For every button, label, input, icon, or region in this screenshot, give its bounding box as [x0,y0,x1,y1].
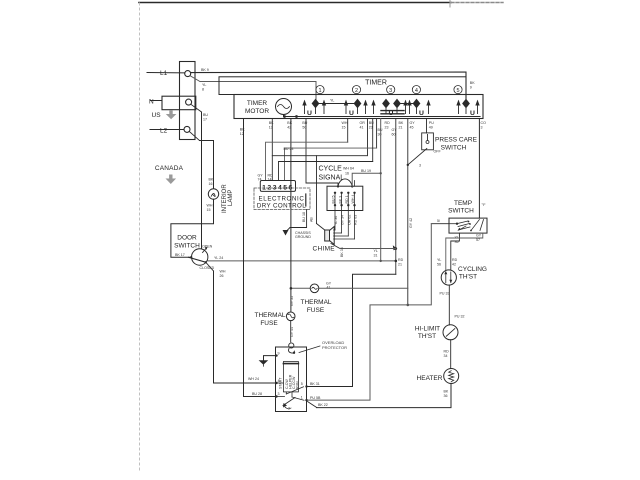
svg-text:PU 5B: PU 5B [310,396,321,400]
wire arc jumper WH-64 [338,179,352,186]
timer contact group 5 [456,99,479,117]
temp switch S4 [449,218,487,233]
svg-text:16: 16 [345,172,349,176]
wire N to door switch BU-17 [191,104,202,112]
svg-text:15: 15 [207,208,211,212]
svg-text:LAMP: LAMP [228,190,234,206]
svg-text:4: 4 [415,88,418,94]
svg-text:FUSE: FUSE [307,307,325,314]
wires cycle box to chime [334,230,355,239]
svg-text:36: 36 [444,394,448,398]
svg-text:41: 41 [360,126,364,130]
svg-text:YL: YL [455,236,459,240]
svg-text:CO: CO [481,121,487,125]
svg-text:RD 1: RD 1 [345,195,349,203]
wire H1 horizontal [266,142,348,180]
svg-text:1: 1 [301,396,303,400]
svg-text:GY 42: GY 42 [409,218,413,228]
wire H2 horizontal BU-24 [285,148,377,180]
svg-text:YL 36: YL 36 [334,216,338,225]
svg-text:L1: L1 [160,70,168,77]
svg-text:PRESS CARE: PRESS CARE [435,137,478,144]
svg-text:GY: GY [476,234,482,238]
svg-text:45: 45 [410,126,414,130]
wire cycling to hi-limit PU-33 [448,285,450,325]
svg-text:RD 63: RD 63 [354,215,358,225]
svg-text:PROTECTOR: PROTECTOR [322,345,347,350]
svg-text:YL: YL [330,99,334,103]
wire temp switch left lead GY-55 [431,223,449,225]
svg-text:3: 3 [419,164,421,168]
svg-text:US: US [152,112,162,119]
wire link contacts 1-2 YL [316,103,358,105]
svg-text:GY: GY [392,128,398,132]
terminal block neutral pocket [162,96,196,110]
page left border dashed [139,3,141,470]
wire timer descender to H4 [372,119,374,162]
wire temp switch output 2 to cycling thermostat [446,233,483,270]
svg-text:RD: RD [452,258,458,262]
svg-text:BK: BK [444,390,449,394]
timer contacts box [234,95,483,119]
svg-text:BK 34: BK 34 [340,247,344,257]
svg-text:4: 4 [278,379,280,383]
svg-text:FUSE: FUSE [260,320,278,327]
wire H3 horizontal [272,155,367,157]
ground CANADA [166,175,177,185]
svg-text:17: 17 [203,118,207,122]
motor M1 box [276,347,307,412]
timer cam number 4 [412,86,420,94]
wire door switch common YL-24 long run [208,260,396,262]
svg-text:TIMER: TIMER [365,80,387,87]
svg-text:BK 22: BK 22 [318,403,328,407]
svg-text:ELECTRONIC: ELECTRONIC [259,196,305,203]
timer cam number 2 [352,86,360,94]
svg-text:GY 35: GY 35 [290,296,294,306]
chime speaker LS1 [325,230,330,241]
svg-text:BU: BU [302,121,307,125]
svg-text:BU 5: BU 5 [332,196,336,204]
wire timer descender to H3 [367,119,369,156]
wire chime feed diagonal [317,224,325,231]
wire timer to press care and temp net GY-45 [407,119,409,305]
svg-text:RD: RD [444,350,450,354]
svg-text:15: 15 [342,126,346,130]
svg-text:WH 24: WH 24 [248,377,259,381]
svg-text:SWITCH: SWITCH [174,243,200,250]
svg-text:BK 17: BK 17 [175,253,185,257]
svg-text:BK: BK [287,121,292,125]
svg-text:SWITCH: SWITCH [448,208,474,215]
wire timer to thermal fuse BK-42 [290,119,292,312]
press care switch S2 [422,133,434,150]
chassis ground symbol [283,228,291,236]
svg-text:BK: BK [209,178,214,182]
motor winding box [283,362,298,392]
svg-text:U: U [419,110,424,117]
junction PU net and GY-45 [407,304,410,307]
svg-text:BU 19: BU 19 [361,169,371,173]
junction door wire [395,260,398,263]
wire timer to temp switch CO-3 [478,119,480,219]
terminal L1 [185,71,191,77]
wire temp switch output 1 to cycling thermostat [451,233,460,270]
wire timer to cycle signal feed [306,119,338,187]
motor centrifugal switch [283,398,295,406]
wire H4 horizontal chime feed [316,156,318,224]
timer cam number 1 [316,86,324,94]
svg-text:57: 57 [476,238,480,242]
svg-text:31: 31 [374,254,378,258]
wire hi-limit to heater [450,340,452,369]
svg-text:36: 36 [455,240,459,244]
cycle signal pins [335,181,355,240]
timer cam number 5 [454,86,462,94]
svg-text:BU: BU [369,121,374,125]
svg-text:21: 21 [399,126,403,130]
heater R1 [444,369,459,384]
svg-text:2: 2 [355,88,358,94]
hi-limit thermostat TH2 [443,325,458,340]
svg-text:2: 2 [288,407,290,411]
svg-text:CHIME: CHIME [313,246,336,253]
svg-text:BU: BU [203,113,208,117]
svg-text:56: 56 [437,263,441,267]
wire heater to motor bottom BK-22 [317,383,452,407]
svg-text:23: 23 [369,126,373,130]
svg-text:8: 8 [202,87,204,91]
svg-text:BU: BU [378,128,383,132]
electronic dry control U2 dashed box [254,188,310,210]
wire L2 to interior lamp BK-16 [189,132,199,141]
svg-text:THERMAL: THERMAL [300,299,331,306]
door switch S1 [192,249,208,265]
wire lamp to door switch WH-15 [171,199,214,257]
wire YL-8 to timer contact 1 [200,82,316,101]
wire timer motor stem [283,115,285,117]
svg-text:9: 9 [470,86,472,90]
svg-text:CYCLING: CYCLING [458,266,487,273]
ground US [166,110,177,119]
svg-text:WH: WH [342,121,348,125]
svg-text:DOOR: DOOR [177,235,197,242]
svg-text:BK 3: BK 3 [338,196,342,204]
wire EDC to chassis ground [290,210,307,228]
svg-text:°F: °F [482,202,487,207]
motor internal leads [277,383,305,400]
svg-text:L2: L2 [160,128,168,135]
svg-text:5: 5 [456,88,459,94]
ground motor chassis [259,360,269,365]
svg-text:MOTOR: MOTOR [245,108,269,115]
wire press care switch arm [408,149,427,165]
svg-text:BK: BK [470,81,475,85]
svg-text:U: U [349,110,354,117]
svg-text:SWITCH: SWITCH [441,145,467,152]
overload protector OL1 [289,343,294,348]
svg-text:YL: YL [374,249,378,253]
svg-text:HI-LIMIT: HI-LIMIT [415,326,440,333]
svg-text:BU 18: BU 18 [302,212,306,222]
svg-text:CYCLE: CYCLE [319,166,343,173]
wire L1 branch diagonal YL-8 [190,76,200,82]
svg-text:HEATER: HEATER [417,375,443,382]
junction press care arm [407,164,409,166]
svg-text:PU 32: PU 32 [455,315,465,319]
svg-text:YL 24: YL 24 [214,256,223,260]
svg-text:OR 62: OR 62 [347,215,351,225]
svg-text:42: 42 [452,263,456,267]
wire timer to EDC terminal 2 [271,119,273,181]
svg-text:YL: YL [437,258,441,262]
svg-text:3: 3 [481,126,483,130]
temp switch arrow [459,226,466,230]
wire chime output BK-34 [331,244,340,249]
svg-text:34: 34 [444,354,448,358]
svg-text:WH: WH [207,204,213,208]
timer cam number 3 [387,86,395,94]
wire L1 lead-in [147,72,185,74]
cycle signal box U3 [327,186,363,210]
wire timer to chime-door junction RD-21 [395,119,397,275]
svg-text:AB: AB [310,217,314,222]
terminal block TB1 [180,62,196,140]
svg-text:BK: BK [399,121,404,125]
svg-text:TH'ST: TH'ST [418,333,436,340]
svg-text:WH 64: WH 64 [343,167,354,171]
svg-text:RUN: RUN [296,381,300,389]
wire timer motor feed BU down left side [244,119,276,397]
wire fuse to overload protector GY-44 [290,321,292,342]
svg-text:21: 21 [398,263,402,267]
svg-text:5/: 5/ [437,219,440,223]
EDC terminal strip [260,181,295,192]
wire L1 to timer contact 5, BK-9 [191,72,466,100]
page top border solid [139,2,451,4]
terminal L2 [184,126,190,132]
svg-text:9: 9 [278,352,280,356]
svg-text:49: 49 [429,126,433,130]
svg-text:BU 24: BU 24 [284,147,294,151]
svg-text:GY: GY [410,121,416,125]
wire PU net motor to temp switch [307,224,432,400]
svg-text:PU: PU [429,121,434,125]
svg-text:GY 44: GY 44 [290,327,294,337]
svg-text:60: 60 [392,133,396,137]
svg-text:DRY CONTROL: DRY CONTROL [257,203,306,210]
motor terminal dots [275,354,307,401]
svg-text:BU 28: BU 28 [252,392,262,396]
svg-text:YL: YL [202,83,206,87]
timer contact group 4 [407,99,430,117]
wire timer to motor BK-31 [307,274,396,386]
svg-text:OPEN: OPEN [202,244,213,248]
wire cycle signal loop BU-19 [352,173,381,186]
thermal fuse F2 inline [310,284,319,293]
svg-text:N: N [149,99,154,106]
thermal fuse F1 vertical [286,312,295,321]
svg-text:3: 3 [389,88,392,94]
svg-text:BK: BK [269,121,274,125]
wire H4 horizontal [279,162,373,181]
wire N lead-in [150,100,162,102]
wire motor pin2 diagonal to heater bus [308,402,317,408]
svg-text:41: 41 [327,286,331,290]
timer contact group 1 [302,99,326,117]
interior lamp [208,189,218,199]
wire code labels under timer [240,81,486,137]
svg-text:16: 16 [209,182,213,186]
wire door switch closed to motor WH-26 [206,263,214,272]
wire timer descender to H2 [376,119,378,149]
svg-text:BK 31: BK 31 [310,382,320,386]
svg-text:23: 23 [385,126,389,130]
svg-text:5: 5 [301,382,303,386]
timer outer box [219,77,466,95]
wire timer descender WH-15 to H1 [347,119,349,143]
svg-text:BK 9: BK 9 [201,68,209,72]
svg-text:U: U [470,110,475,117]
svg-text:TEMP: TEMP [454,200,472,207]
svg-text:TIMER: TIMER [247,100,268,107]
svg-text:WH 4: WH 4 [351,195,355,204]
svg-text:TH'ST: TH'ST [459,274,477,281]
svg-text:THERMAL: THERMAL [254,312,285,319]
cycling thermostat TH1 [441,270,456,285]
wire timer to press care switch [426,119,428,133]
svg-text:GY 34: GY 34 [341,215,345,225]
svg-text:CANADA: CANADA [155,165,184,172]
wire link contacts 3-4 [397,103,417,105]
wire contact common bus [285,116,481,118]
wire L2 lead-in [150,129,184,131]
svg-text:RD: RD [385,121,391,125]
svg-text:BK: BK [240,128,245,132]
svg-text:3: 3 [278,392,280,396]
top border tick [449,0,451,7]
leader line overload [299,346,320,353]
svg-text:WH: WH [220,270,226,274]
timer contact group 3 [371,99,407,117]
svg-text:1: 1 [318,88,321,94]
svg-text:OR: OR [360,121,366,125]
timer contact group 2 [344,99,368,117]
wire fuse bus horizontal [291,287,408,289]
svg-text:GROUND: GROUND [295,235,311,239]
terminal N [186,99,192,105]
junction chime wire [395,247,398,250]
timer motor M [276,99,292,115]
wire motor ground [264,356,276,361]
svg-text:26: 26 [220,274,224,278]
svg-text:PU 33: PU 33 [440,292,450,296]
svg-text:U: U [307,110,312,117]
page top border dashed [451,2,503,4]
svg-text:RD: RD [398,258,404,262]
